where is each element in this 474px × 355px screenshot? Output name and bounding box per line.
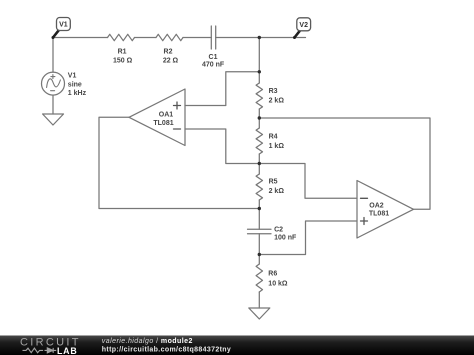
wire R4-R5 node to OA2 - [259,164,357,199]
svg-text:sine: sine [68,81,82,88]
junction node dots [258,36,261,256]
wire OA1 output loop [99,117,259,208]
svg-text:C2: C2 [274,227,283,234]
svg-text:LAB: LAB [57,346,77,355]
resistor R4 [256,128,262,154]
OA2 minus sign [361,197,368,199]
wire R4 to R5 [258,154,260,174]
resistor R5 [256,174,262,200]
svg-text:TL081: TL081 [153,120,173,127]
sine symbol [47,79,61,88]
OA1 minus sign [174,128,181,130]
svg-text:R6: R6 [268,271,277,278]
svg-text:22 Ω: 22 Ω [163,57,179,64]
wire C1 to V2 node [216,37,295,39]
wire OA1 + input [185,72,259,106]
svg-text:10 kΩ: 10 kΩ [268,280,288,287]
svg-text:R3: R3 [269,88,278,95]
svg-text:http://circuitlab.com/c8tq8843: http://circuitlab.com/c8tq884372tny [102,347,231,354]
footer credits [102,338,231,353]
wire R6 to ground [258,292,260,308]
op-amp OA1 [129,89,185,146]
wire R1 to R2 [135,37,157,39]
logo resistor zigzag [23,348,44,353]
V1 source sine and polarity [47,75,61,91]
minus sign V1 [51,90,55,92]
wire V2 flag stub [295,37,306,39]
op-amp pin signs [174,102,368,225]
node top rail / R3 branch [258,36,261,39]
svg-text:470 nF: 470 nF [202,61,225,68]
footer bar [0,336,474,355]
wire OA1 - input [185,129,259,164]
flag V1 [52,18,71,40]
wire V1 to ground [52,95,54,114]
svg-text:OA1: OA1 [159,112,174,119]
wire R2 to C1 [183,37,211,39]
svg-text:R5: R5 [269,179,278,186]
svg-text:2 kΩ: 2 kΩ [269,188,285,195]
resistor R3 [256,83,262,109]
node C2/R6 OA2 + [258,253,261,256]
plus sign V1 [51,75,55,79]
wire R3 to R4 [258,109,260,128]
wire V1 branch down [52,38,54,73]
svg-text:V1: V1 [68,73,77,80]
svg-text:V1: V1 [59,22,68,29]
resistor R1 [108,34,135,40]
OA1 plus sign [174,102,181,109]
OA2 plus sign [361,218,368,225]
node R3 top / OA1 + [258,70,261,73]
circuitlab logo text [20,337,81,355]
svg-text:R1: R1 [118,49,127,56]
ground (V1) [43,114,64,125]
svg-text:1 kHz: 1 kHz [68,90,87,97]
svg-text:V2: V2 [299,22,308,29]
svg-text:C1: C1 [209,54,218,61]
wire node chain top [258,38,260,84]
capacitor C2 [248,229,272,233]
wire top rail from V1 node to R1 [53,37,108,39]
capacitor C1 [211,26,215,49]
wire R5 to C2 [258,200,260,229]
svg-text:100 nF: 100 nF [274,235,297,242]
voltage source V1 [42,72,65,95]
node R4/R5 OA2 - [258,162,261,165]
svg-text:1 kΩ: 1 kΩ [269,143,285,150]
op-amp OA2 [357,181,414,239]
svg-text:150 Ω: 150 Ω [113,57,133,64]
resistor R6 [256,264,262,292]
ground (R6) [249,308,270,319]
node R5/C2 OA1 out [258,207,261,210]
svg-text:OA2: OA2 [369,203,384,210]
svg-text:R2: R2 [164,49,173,56]
logo diode [45,348,57,353]
svg-text:2 kΩ: 2 kΩ [269,98,285,105]
wire C2 to R6 [258,234,260,264]
svg-text:TL081: TL081 [369,211,389,218]
svg-text:valerie.hidalgo / module2: valerie.hidalgo / module2 [102,338,193,345]
wire C2-R6 node to OA2 + [259,221,357,255]
resistor R2 [156,34,183,40]
svg-text:R4: R4 [269,134,278,141]
wire OA2 output feedback [259,118,430,209]
node R3/R4 feedback [258,116,261,119]
flag V2 [293,18,311,39]
